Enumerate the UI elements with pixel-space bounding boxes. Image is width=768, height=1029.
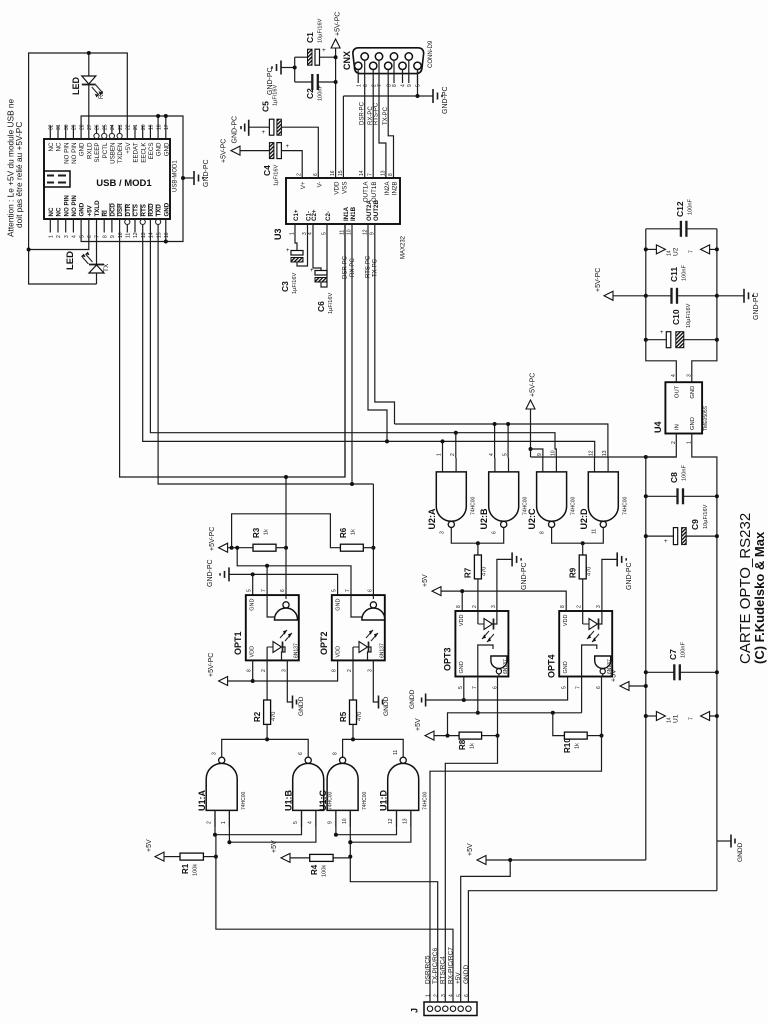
junction R2 bottom bbox=[265, 737, 269, 741]
wire U1:C/U1:D outputs to R5 node bbox=[343, 739, 404, 757]
svg-text:GND-PC: GND-PC bbox=[521, 562, 528, 590]
svg-text:30: 30 bbox=[64, 124, 70, 130]
svg-text:1µF/16V: 1µF/16V bbox=[274, 164, 280, 186]
wire R6 to OPT2 pin6 node bbox=[363, 547, 373, 549]
svg-text:USB-MOD1: USB-MOD1 bbox=[173, 160, 179, 192]
CNX pin 8 hole bbox=[390, 53, 397, 60]
wire U3 IN1A DSR-PC down bbox=[344, 224, 346, 477]
svg-text:32: 32 bbox=[49, 124, 55, 130]
svg-text:R6: R6 bbox=[339, 527, 348, 538]
wire CNX pin6 DSR-PC to U3 OUT1A bbox=[364, 83, 366, 178]
junction C2 right bbox=[334, 80, 338, 84]
IC U3 MAX232 body bbox=[286, 178, 400, 224]
svg-text:24: 24 bbox=[110, 124, 116, 130]
USB/MOD1 top pin 31 (NC) bbox=[57, 126, 59, 140]
svg-text:RX-PIC/RC7: RX-PIC/RC7 bbox=[447, 947, 454, 984]
svg-text:5: 5 bbox=[458, 686, 464, 689]
wire bus row TX-PC to U2 gates B and D bbox=[395, 424, 608, 458]
wire U1:C/U1:D input net row2 bbox=[350, 810, 411, 842]
svg-text:CONN-D9: CONN-D9 bbox=[428, 40, 434, 68]
wire U3 OUT2A RTS-PC down bbox=[368, 224, 387, 441]
junction GND bottom rail bbox=[164, 240, 168, 244]
svg-text:16: 16 bbox=[330, 170, 336, 176]
svg-text:1: 1 bbox=[221, 821, 227, 824]
wire OPT1 pin8 stub bbox=[252, 660, 254, 681]
svg-text:29: 29 bbox=[72, 124, 78, 130]
CNX pin 6 hole bbox=[361, 53, 368, 60]
svg-text:IN1B: IN1B bbox=[350, 206, 357, 221]
junction +5V flag J bbox=[508, 858, 512, 862]
USB/MOD1 bottom pin 6 (+5V) bbox=[88, 219, 90, 233]
wire CNX pin3 TX-PC to U3 IN2B bbox=[388, 83, 393, 178]
svg-text:IN2A: IN2A bbox=[384, 181, 391, 196]
svg-text:15: 15 bbox=[156, 232, 162, 238]
svg-text:TX-PIC/RC6: TX-PIC/RC6 bbox=[432, 948, 439, 985]
J pin 6 (GNDD) bbox=[466, 1006, 471, 1011]
power pin flag U2 pin7 bbox=[708, 248, 717, 250]
svg-text:6: 6 bbox=[313, 173, 319, 176]
U2:B input pin 4 stub bbox=[494, 458, 496, 472]
connector CNX DB9 body bbox=[353, 48, 424, 74]
svg-text:74HC00: 74HC00 bbox=[423, 791, 429, 810]
OPT4 LED arrows bbox=[587, 631, 594, 639]
svg-text:8: 8 bbox=[560, 605, 566, 608]
svg-text:+5V-PC: +5V-PC bbox=[221, 139, 228, 163]
power flag +5V-PC at R3 bbox=[219, 543, 228, 552]
CNX pin 4 hole bbox=[399, 62, 406, 69]
svg-text:C12: C12 bbox=[675, 201, 685, 217]
svg-text:TXD: TXD bbox=[156, 204, 163, 217]
junction C9 rails bbox=[644, 534, 648, 538]
svg-text:21: 21 bbox=[133, 124, 139, 130]
svg-text:1k: 1k bbox=[264, 529, 270, 535]
svg-text:U2: U2 bbox=[673, 247, 680, 256]
svg-text:12: 12 bbox=[589, 450, 595, 456]
svg-text:C8: C8 bbox=[669, 472, 679, 483]
svg-text:+5V-PC: +5V-PC bbox=[530, 373, 537, 397]
svg-text:GND: GND bbox=[79, 142, 86, 156]
CNX pin 2 hole bbox=[370, 62, 377, 69]
OPT3 LED arrows bbox=[482, 631, 489, 639]
junction CNX gnd bbox=[416, 94, 420, 98]
power pin flag U2 pin14 bbox=[646, 248, 657, 250]
U2:C input pin 10 stub bbox=[555, 458, 557, 472]
wire RX net vertical to OPT2 output bbox=[372, 484, 374, 595]
svg-text:C7: C7 bbox=[668, 649, 678, 660]
USB/MOD1 bottom pin 12 (CTS) bbox=[134, 219, 136, 233]
svg-text:28: 28 bbox=[79, 124, 85, 130]
svg-text:13: 13 bbox=[380, 170, 386, 176]
svg-text:C5: C5 bbox=[261, 101, 271, 112]
svg-text:+5V: +5V bbox=[271, 840, 278, 853]
wire OPT1 pin5 stub bbox=[252, 574, 254, 595]
wire C1/C2 left node bbox=[294, 57, 296, 82]
svg-text:R1: R1 bbox=[181, 863, 190, 874]
junction C11 right rail bbox=[715, 294, 719, 298]
svg-text:GND: GND bbox=[79, 202, 86, 216]
svg-text:NC: NC bbox=[48, 142, 55, 151]
ground GNDD at OPT2 pin3 bbox=[373, 660, 378, 702]
svg-text:GND: GND bbox=[690, 386, 696, 399]
capacitor C1 bbox=[295, 56, 308, 58]
wire net RXD from USB module bbox=[150, 233, 556, 459]
OPT1 LED arrows bbox=[280, 630, 287, 638]
svg-text:DSR: DSR bbox=[117, 203, 124, 217]
svg-text:100nF: 100nF bbox=[682, 265, 688, 281]
svg-text:GND: GND bbox=[250, 598, 256, 610]
svg-text:14: 14 bbox=[359, 170, 365, 176]
capacitor C7 bbox=[646, 671, 675, 673]
wire R10 riser bbox=[553, 713, 565, 736]
svg-text:RTS-PC: RTS-PC bbox=[374, 102, 380, 125]
J pin 4 (RX-PIC/RC7) bbox=[450, 1006, 455, 1011]
U2:A input pin 2 stub bbox=[455, 458, 457, 472]
svg-text:GND-PC: GND-PC bbox=[232, 116, 239, 144]
wire branch U2:A pin1 from RTS row bbox=[442, 441, 444, 458]
wire OPT3 pin7 to enable rail bbox=[477, 677, 479, 713]
svg-text:5: 5 bbox=[332, 589, 338, 592]
svg-text:16: 16 bbox=[164, 232, 170, 238]
svg-text:470: 470 bbox=[357, 712, 363, 721]
svg-text:C9: C9 bbox=[690, 519, 700, 530]
svg-text:8: 8 bbox=[102, 235, 108, 238]
svg-text:GNDD: GNDD bbox=[298, 696, 305, 716]
capacitor C2 bbox=[295, 81, 313, 83]
ground GND-PC at OPT4 bbox=[602, 559, 617, 611]
svg-text:OUT: OUT bbox=[675, 385, 681, 398]
power pin flag U1 pin14 bbox=[646, 715, 657, 717]
svg-text:GNDD: GNDD bbox=[463, 965, 470, 984]
CNX pin 2 stub bbox=[372, 69, 374, 83]
svg-text:9: 9 bbox=[537, 453, 543, 456]
svg-text:R8: R8 bbox=[458, 739, 467, 750]
junction R7 top bbox=[476, 541, 480, 545]
svg-text:18: 18 bbox=[156, 124, 162, 130]
power flag +5V at R1 bbox=[155, 852, 164, 861]
svg-text:IN2B: IN2B bbox=[392, 182, 399, 196]
svg-text:GND: GND bbox=[459, 661, 465, 673]
wire +5V-PC rail left (C10-C12 loop) bbox=[646, 229, 677, 382]
svg-text:6: 6 bbox=[298, 752, 304, 755]
USB/MOD1 top pin 20 (EECLK) bbox=[142, 126, 144, 140]
svg-text:12: 12 bbox=[133, 232, 139, 238]
ground GND-PC right of CNX bbox=[432, 89, 434, 103]
resistor R5 bbox=[352, 660, 354, 700]
svg-text:V-: V- bbox=[316, 182, 323, 188]
OPT1 internal enable wire bbox=[267, 595, 275, 617]
svg-text:8: 8 bbox=[392, 84, 398, 87]
USB/MOD1 bottom pin 11 (DTR) bbox=[126, 225, 128, 233]
svg-text:R7: R7 bbox=[464, 567, 473, 578]
svg-text:100k: 100k bbox=[322, 865, 328, 877]
svg-text:100nF: 100nF bbox=[318, 85, 324, 101]
CNX pin 1 hole bbox=[355, 62, 362, 69]
wire U3 OUT2B TX-PC down bbox=[375, 224, 395, 424]
svg-text:R10: R10 bbox=[563, 738, 572, 753]
svg-text:C6: C6 bbox=[316, 301, 326, 312]
svg-text:13: 13 bbox=[402, 818, 408, 824]
svg-text:U1:D: U1:D bbox=[379, 789, 389, 811]
junction C8 rails bbox=[644, 494, 648, 498]
svg-text:NO PIN: NO PIN bbox=[63, 195, 70, 217]
wire CNX pin2 RX-PC to U3 OUT1B bbox=[372, 83, 374, 178]
CNX pin 5 hole bbox=[414, 62, 421, 69]
svg-text:9: 9 bbox=[407, 84, 413, 87]
junction R8 +5V riser bbox=[446, 734, 450, 738]
svg-text:6: 6 bbox=[492, 531, 498, 534]
J pin 3 (RTS/RC4) bbox=[443, 1006, 448, 1011]
NAND gate U1:D (74HC00) bbox=[388, 763, 419, 810]
svg-text:6N137: 6N137 bbox=[294, 643, 300, 658]
svg-text:LED: LED bbox=[71, 76, 81, 95]
svg-text:2: 2 bbox=[347, 669, 353, 672]
svg-text:NO PIN: NO PIN bbox=[63, 143, 70, 164]
wire R10 to OPT4 output bbox=[587, 735, 601, 737]
svg-text:EECS: EECS bbox=[148, 143, 155, 160]
svg-text:3: 3 bbox=[596, 605, 602, 608]
svg-text:U2:B: U2:B bbox=[479, 508, 489, 530]
svg-text:74HC00: 74HC00 bbox=[571, 496, 577, 515]
LED RX emission arrows bbox=[92, 87, 99, 95]
wire U4 pin1 GNDD down bbox=[692, 434, 717, 891]
USB/MOD1 bottom pin 16 (GND) bbox=[165, 219, 167, 233]
svg-text:+5V: +5V bbox=[611, 669, 618, 682]
svg-text:1µF/16V: 1µF/16V bbox=[328, 292, 334, 314]
U2:D input pin 13 stub bbox=[607, 458, 609, 472]
svg-text:13: 13 bbox=[602, 450, 608, 456]
svg-text:+5V: +5V bbox=[146, 839, 153, 852]
wire OPT3 output to J pin3 (RTS/RC4) bbox=[445, 677, 497, 986]
svg-text:NO PIN: NO PIN bbox=[71, 195, 78, 217]
svg-text:OPT2: OPT2 bbox=[319, 631, 329, 655]
junction +5V loop left bbox=[27, 248, 31, 252]
svg-text:1: 1 bbox=[49, 235, 55, 238]
svg-text:GNDD: GNDD bbox=[737, 842, 744, 862]
svg-text:10: 10 bbox=[342, 818, 348, 824]
svg-text:3: 3 bbox=[441, 994, 447, 997]
junction DSR row bbox=[284, 475, 288, 479]
CNX pin 6 stub bbox=[364, 60, 366, 83]
wire U2:C/U2:D output rail to R9 bbox=[552, 528, 604, 544]
junction TX row / U2:B pin5 bbox=[506, 422, 510, 426]
capacitor C4 bbox=[269, 143, 274, 159]
svg-text:3: 3 bbox=[686, 374, 692, 377]
svg-text:12: 12 bbox=[388, 818, 394, 824]
svg-text:+5V-PC: +5V-PC bbox=[209, 527, 216, 551]
svg-text:26: 26 bbox=[95, 124, 101, 130]
USB/MOD1 bottom pin 2 (NC) bbox=[57, 219, 59, 233]
CNX pin 7 stub bbox=[378, 60, 380, 83]
svg-text:U1:C: U1:C bbox=[318, 789, 328, 811]
junction OPT1 pin7 bbox=[265, 564, 269, 568]
junction TX row / U2:B pin4 bbox=[493, 422, 497, 426]
svg-text:10µF/16V: 10µF/16V bbox=[318, 18, 324, 43]
svg-text:7: 7 bbox=[95, 235, 101, 238]
svg-text:R3: R3 bbox=[252, 527, 261, 538]
junction +5V-PC row bbox=[529, 447, 533, 451]
svg-text:10µF/16V: 10µF/16V bbox=[703, 504, 709, 529]
LED RX diode bbox=[88, 53, 90, 76]
svg-text:C3: C3 bbox=[280, 281, 290, 292]
svg-text:+: + bbox=[660, 330, 664, 336]
svg-text:OPT4: OPT4 bbox=[547, 654, 557, 678]
svg-text:USB / MOD1: USB / MOD1 bbox=[96, 178, 152, 189]
CNX pin 7 hole bbox=[375, 53, 382, 60]
svg-text:1: 1 bbox=[426, 994, 432, 997]
junction RXD row / U2:A pin2 bbox=[454, 431, 458, 435]
svg-text:11: 11 bbox=[126, 233, 132, 238]
LED TX emission arrows bbox=[86, 254, 93, 262]
svg-text:VSS: VSS bbox=[341, 182, 348, 194]
svg-text:1k: 1k bbox=[351, 529, 357, 535]
USB/MOD1 top pin 28 (GND) bbox=[80, 126, 82, 140]
svg-text:8: 8 bbox=[247, 669, 253, 672]
svg-text:11: 11 bbox=[393, 750, 399, 755]
wire pin7 rail to +5V-PC bbox=[237, 548, 267, 566]
power flag +5V-PC top bbox=[331, 39, 340, 48]
svg-text:V+: V+ bbox=[300, 181, 307, 189]
svg-text:9: 9 bbox=[327, 821, 333, 824]
svg-text:3: 3 bbox=[367, 669, 373, 672]
svg-text:3: 3 bbox=[212, 752, 218, 755]
USB/MOD1 top pin 25 (PCTL) bbox=[103, 126, 105, 134]
svg-text:5: 5 bbox=[79, 235, 85, 238]
svg-text:22: 22 bbox=[126, 124, 132, 130]
svg-text:74HC00: 74HC00 bbox=[622, 496, 628, 515]
wire CNX pin7 RTS-PC to U3 IN2A bbox=[379, 83, 386, 178]
ground GND-PC at OPT3 bbox=[497, 559, 512, 611]
svg-text:VDD: VDD bbox=[334, 181, 341, 195]
wire GND-PC rail right (C10-C12 loop) bbox=[692, 229, 717, 382]
USB/MOD1 bottom pin 3 (NO PIN) bbox=[65, 219, 67, 233]
wire +5V-PC branch to R6 bbox=[232, 514, 341, 548]
svg-text:NC: NC bbox=[56, 207, 63, 216]
svg-text:31: 31 bbox=[56, 124, 62, 130]
OPT4 internal NAND (pointing down) bbox=[595, 656, 611, 669]
svg-text:5: 5 bbox=[293, 821, 299, 824]
svg-text:GNDD: GNDD bbox=[409, 689, 416, 709]
svg-text:C10: C10 bbox=[671, 309, 681, 325]
svg-text:2: 2 bbox=[472, 605, 478, 608]
USB/MOD1 bottom pin 9 (DCD) bbox=[111, 219, 113, 233]
ground GND-PC left of C1 bbox=[280, 61, 282, 75]
svg-text:2: 2 bbox=[297, 173, 303, 176]
wire R8 to OPT3 output bbox=[482, 735, 498, 737]
LED TX diode bbox=[96, 233, 98, 265]
OPT2 internal LED bbox=[352, 647, 354, 660]
capacitor C3 with wiring to U3 pins 1/3 bbox=[295, 224, 297, 251]
junction OPT4 output / R10 bbox=[600, 734, 604, 738]
junction +5V tap bbox=[644, 684, 648, 688]
USB/MOD1 bottom pin 8 (RI) bbox=[103, 219, 105, 233]
USB/MOD1 top pin 21 (EEDAT) bbox=[134, 126, 136, 140]
junction +5V-PC rail top bbox=[644, 455, 648, 459]
svg-text:5: 5 bbox=[247, 589, 253, 592]
svg-text:+: + bbox=[262, 130, 266, 136]
J pin 5 (+5V) bbox=[458, 1006, 463, 1011]
junction R5 bottom bbox=[351, 737, 355, 741]
wire branch U2:C pin9 to +5V-PC row bbox=[531, 449, 543, 458]
svg-text:2: 2 bbox=[56, 235, 62, 238]
svg-text:7: 7 bbox=[576, 686, 582, 689]
svg-text:OUT1B: OUT1B bbox=[371, 182, 378, 203]
svg-text:17: 17 bbox=[164, 124, 170, 130]
svg-text:GND: GND bbox=[690, 417, 696, 430]
svg-text:DSR-PC: DSR-PC bbox=[359, 101, 365, 125]
svg-text:27: 27 bbox=[87, 124, 93, 130]
OPT4 internal LED bbox=[582, 611, 584, 624]
U2:B input pin 5 stub bbox=[508, 458, 510, 472]
resistor R1 bbox=[180, 853, 203, 860]
svg-text:DSR-PC: DSR-PC bbox=[343, 255, 349, 279]
OPT3 internal enable wire bbox=[478, 645, 493, 677]
svg-text:8: 8 bbox=[333, 752, 339, 755]
svg-text:RX: RX bbox=[99, 91, 105, 99]
NAND gate U1:B (74HC00) bbox=[293, 763, 324, 810]
power flag +5V tap on left rail bbox=[620, 682, 629, 691]
wire OPT3 pin5 stub bbox=[463, 677, 465, 701]
resistor R3 bbox=[253, 544, 276, 551]
svg-text:+: + bbox=[322, 47, 326, 54]
OPT3 internal NAND (pointing down) bbox=[491, 656, 507, 669]
svg-text:DSR/RC5: DSR/RC5 bbox=[424, 955, 431, 984]
svg-text:VDD: VDD bbox=[336, 646, 342, 658]
svg-text:6: 6 bbox=[280, 589, 286, 592]
USB/MOD1 bottom pin 10 (DSR) bbox=[119, 219, 121, 233]
USB/MOD1 bottom pin 14 (RXD) bbox=[149, 219, 151, 233]
USB/MOD1 top pin 17 (GND) bbox=[165, 126, 167, 140]
svg-text:(C) F.Kudelsko & Max: (C) F.Kudelsko & Max bbox=[752, 531, 767, 664]
svg-text:470: 470 bbox=[271, 712, 277, 721]
svg-text:15: 15 bbox=[338, 170, 344, 176]
svg-text:+5V: +5V bbox=[422, 574, 429, 587]
CNX pin 9 hole bbox=[405, 53, 412, 60]
svg-text:8: 8 bbox=[332, 669, 338, 672]
capacitor C12 bbox=[646, 228, 681, 230]
wire OPT4 pin7 to enable rail bbox=[581, 677, 583, 713]
svg-text:6N137: 6N137 bbox=[380, 643, 386, 658]
USB/MOD1 bottom pin 5 (GND) bbox=[80, 219, 82, 233]
power flag +5V at R8 bbox=[425, 731, 434, 740]
resistor R6 bbox=[340, 544, 363, 551]
svg-text:2: 2 bbox=[577, 605, 583, 608]
svg-text:+5V: +5V bbox=[467, 843, 474, 856]
power flag +5V-PC left of C4 bbox=[231, 146, 240, 155]
junction R6 / RX net bbox=[371, 546, 375, 550]
wire CNX pin5 to GND-PC bbox=[343, 69, 417, 96]
USB/MOD1 top pin 24 (USBEN) bbox=[111, 126, 113, 134]
wire branch U2:B pin5 bbox=[507, 424, 509, 458]
svg-text:R9: R9 bbox=[569, 567, 578, 578]
USB/MOD1 bottom pin 7 (TXLD) bbox=[96, 219, 98, 233]
svg-text:U1:A: U1:A bbox=[197, 789, 207, 811]
svg-text:25: 25 bbox=[102, 124, 108, 130]
U1:A input pins 2/1 stubs bbox=[214, 810, 216, 827]
svg-text:C11: C11 bbox=[669, 267, 679, 282]
svg-text:C4: C4 bbox=[262, 165, 272, 176]
junction +5V loop / LED RX bbox=[87, 51, 91, 55]
junction OPT3 pin7 enable bbox=[476, 711, 480, 715]
svg-text:OUT2B: OUT2B bbox=[373, 199, 380, 221]
junction R1 net bbox=[214, 855, 218, 859]
svg-text:100k: 100k bbox=[193, 864, 199, 876]
USB/MOD1 bottom pin 1 (NC) bbox=[49, 219, 51, 233]
svg-text:+5V: +5V bbox=[125, 142, 132, 154]
U2:A input pin 1 stub bbox=[442, 458, 444, 472]
svg-text:C1+: C1+ bbox=[293, 209, 300, 221]
svg-text:4: 4 bbox=[489, 453, 495, 456]
optocoupler OPT3 body (6N137) bbox=[455, 611, 508, 677]
